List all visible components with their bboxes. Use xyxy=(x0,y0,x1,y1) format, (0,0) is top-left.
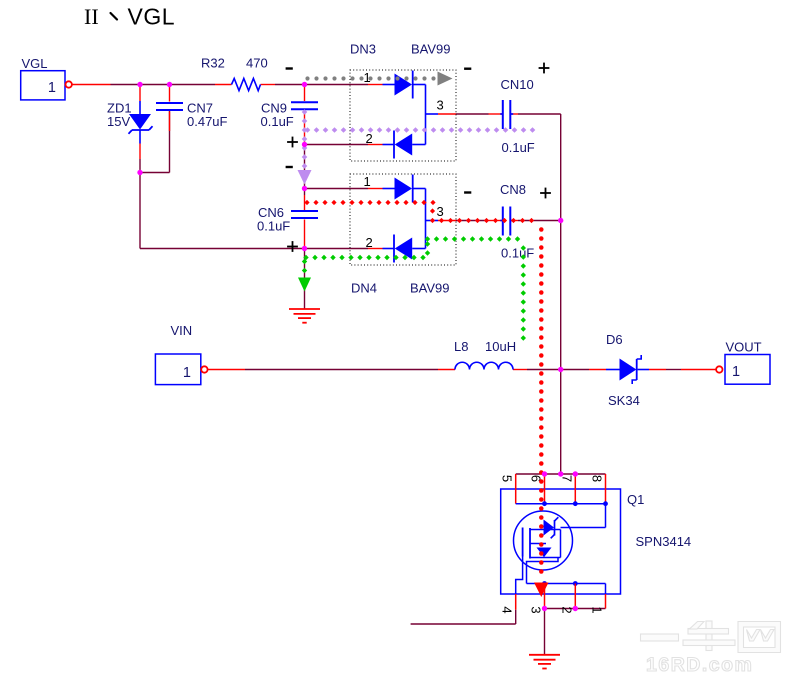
svg-text:5: 5 xyxy=(500,475,515,482)
svg-text:0.1uF: 0.1uF xyxy=(502,140,535,155)
svg-text:D6: D6 xyxy=(606,332,623,347)
svg-text:10uH: 10uH xyxy=(485,339,516,354)
svg-text:470: 470 xyxy=(246,56,268,71)
svg-text:II: II xyxy=(84,4,99,29)
svg-text:0.47uF: 0.47uF xyxy=(187,114,228,129)
svg-text:2: 2 xyxy=(366,131,373,146)
svg-text:1: 1 xyxy=(48,80,56,96)
svg-text:1: 1 xyxy=(364,174,371,189)
svg-text:Q1: Q1 xyxy=(627,492,644,507)
svg-text:L8: L8 xyxy=(454,339,468,354)
svg-text:SK34: SK34 xyxy=(608,393,640,408)
svg-text:15V: 15V xyxy=(107,114,130,129)
svg-text:3: 3 xyxy=(437,204,444,219)
svg-text:VGL: VGL xyxy=(128,4,176,30)
svg-text:VGL: VGL xyxy=(22,56,48,71)
svg-text:CN10: CN10 xyxy=(501,77,534,92)
svg-text:8: 8 xyxy=(590,475,605,482)
svg-text:CN8: CN8 xyxy=(500,182,526,197)
svg-text:0.1uF: 0.1uF xyxy=(257,219,290,234)
svg-text:16RD.com: 16RD.com xyxy=(646,654,753,676)
svg-text:2: 2 xyxy=(366,235,373,250)
svg-text:0.1uF: 0.1uF xyxy=(501,246,534,261)
svg-text:2: 2 xyxy=(559,606,574,613)
svg-text:BAV99: BAV99 xyxy=(410,281,450,296)
svg-text:BAV99: BAV99 xyxy=(411,42,451,57)
svg-text:VOUT: VOUT xyxy=(726,340,762,355)
svg-text:4: 4 xyxy=(500,606,515,613)
svg-text:0.1uF: 0.1uF xyxy=(261,114,294,129)
svg-text:DN4: DN4 xyxy=(351,281,377,296)
svg-text:DN3: DN3 xyxy=(350,42,376,57)
svg-text:VIN: VIN xyxy=(171,323,193,338)
svg-text:1: 1 xyxy=(590,606,605,613)
svg-text:1: 1 xyxy=(183,365,191,381)
svg-text:SPN3414: SPN3414 xyxy=(636,534,692,549)
svg-text:3: 3 xyxy=(437,98,444,113)
svg-text:1: 1 xyxy=(732,364,740,380)
svg-text:3: 3 xyxy=(529,606,544,613)
svg-text:R32: R32 xyxy=(201,56,225,71)
